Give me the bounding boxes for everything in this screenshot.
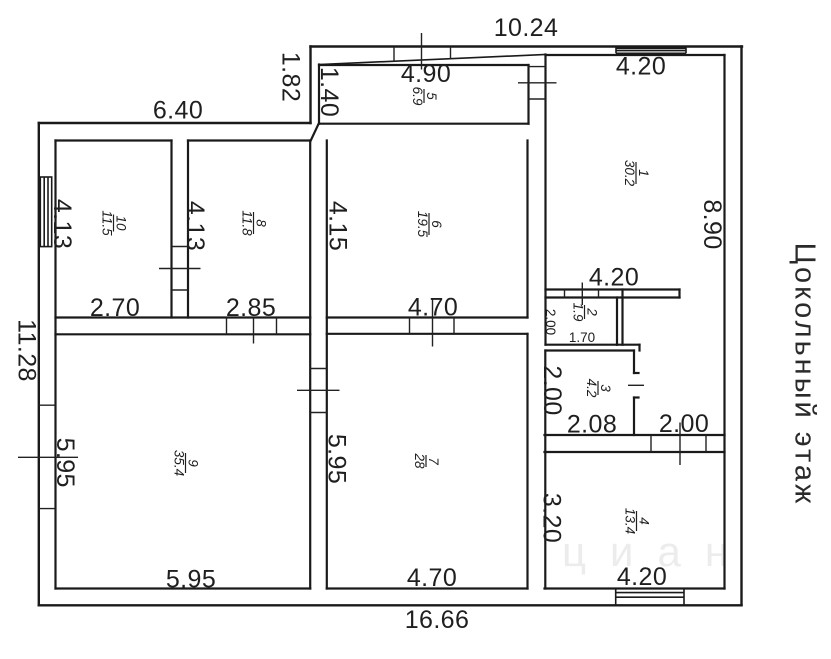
wire room 1 left wall	[544, 55, 546, 345]
node room 10+9 left wall	[54, 141, 56, 589]
window room9 left lower rung	[39, 508, 56, 510]
svg-text:2.00: 2.00	[543, 309, 558, 335]
wire outer top-left wall	[39, 122, 311, 124]
wire room 9 top wall	[56, 333, 311, 335]
window room1 top right cap	[685, 47, 687, 54]
svg-text:4.13: 4.13	[48, 199, 76, 249]
window room1 top hatch line2	[616, 50, 686, 52]
wire diagonal door leaf top	[319, 55, 546, 65]
wire outer left wall	[38, 123, 40, 605]
svg-text:11.5: 11.5	[100, 210, 115, 236]
svg-text:4.2: 4.2	[584, 379, 599, 398]
svg-text:2.00: 2.00	[659, 410, 709, 438]
window room4 bottom right cap	[683, 589, 685, 606]
wire room 5 right wall	[527, 65, 529, 124]
window room1 top left cap	[615, 47, 617, 54]
door top wall right jamb	[450, 47, 452, 59]
svg-text:2.00: 2.00	[538, 365, 566, 415]
wire room 4 bottom wall	[545, 587, 725, 589]
dimension 4.13 room8 vertical	[181, 201, 209, 251]
room 4 label	[623, 508, 652, 534]
svg-text:3: 3	[598, 384, 613, 392]
wire room 2 outer right wall line	[621, 290, 623, 345]
svg-text:4.13: 4.13	[181, 201, 209, 251]
svg-text:2.08: 2.08	[567, 411, 617, 439]
wire room 3 right wall upper	[633, 351, 635, 374]
wire room 1 top wall	[546, 54, 725, 56]
window room10 left hatch line1	[39, 177, 41, 247]
dimension 3.20 room4 vertical	[538, 493, 566, 543]
dimension 8.90 vertical	[698, 199, 726, 249]
window room1 top hatch line1	[616, 47, 686, 49]
door room9/room7 lower rung	[310, 412, 327, 414]
title Цокольный этаж vertical	[789, 243, 821, 507]
window room10 left top cap	[39, 176, 53, 178]
svg-text:4.90: 4.90	[401, 60, 451, 88]
door room9/room7 upper rung	[310, 368, 327, 370]
svg-text:9: 9	[186, 459, 201, 467]
dimension 4.13 room10 vertical	[48, 199, 76, 249]
svg-text:4.20: 4.20	[616, 53, 666, 81]
svg-text:11.8: 11.8	[240, 210, 255, 236]
svg-text:10: 10	[114, 215, 129, 231]
door room10/room8 tick	[159, 268, 201, 270]
room 5 label	[410, 87, 439, 106]
wire outer right wall	[740, 47, 742, 606]
wire room 7 right wall	[526, 334, 528, 589]
wire room 7 top wall	[327, 333, 528, 335]
wire room 3 door jog lower	[634, 396, 639, 398]
wire room 6 bottom wall	[327, 316, 528, 318]
door room1 bottom left jamb	[564, 290, 566, 298]
door room10/room8 lower rung	[172, 289, 189, 291]
wire room 8 top wall	[188, 139, 310, 141]
room 10 label	[100, 210, 129, 236]
wire rooms 8/9 right wall line	[309, 141, 311, 589]
door hall/room4 tick	[679, 423, 681, 466]
window room9 left tick	[18, 456, 78, 458]
svg-text:5.95: 5.95	[323, 434, 351, 484]
door room5/room1 lower rung	[529, 98, 546, 100]
svg-text:1.9: 1.9	[571, 303, 586, 322]
window room10 left bottom cap	[39, 246, 53, 248]
wire jog vertical below room 2	[638, 345, 640, 351]
dimension 2.00 room3 vertical	[538, 365, 566, 415]
wire room 3 right wall lower	[633, 398, 635, 436]
wire room 10 top wall	[56, 139, 172, 141]
svg-text:8: 8	[254, 219, 269, 227]
door top wall tick	[421, 33, 423, 70]
door top wall left jamb	[393, 47, 395, 63]
wire room 3 top wall	[546, 349, 635, 351]
wire outer bottom wall	[39, 604, 742, 606]
svg-text:16.66: 16.66	[405, 606, 470, 634]
door hall/room4 left jamb	[650, 435, 652, 452]
svg-text:3.20: 3.20	[538, 493, 566, 543]
dimension 1.40 vertical	[315, 67, 343, 117]
door room6/room7 left jamb	[409, 318, 411, 334]
svg-text:13.4: 13.4	[623, 508, 638, 534]
wire room 2 bottom wall	[546, 344, 618, 346]
svg-text:Цокольный этаж: Цокольный этаж	[789, 243, 821, 507]
svg-text:1.40: 1.40	[315, 67, 343, 117]
wire room 4 top wall	[545, 451, 725, 453]
wire room 5 left wall	[318, 65, 320, 124]
svg-text:4: 4	[637, 517, 652, 525]
wire diagonal joint wall	[311, 124, 319, 141]
wire room 10/8 wall right line	[187, 141, 189, 318]
door hall/room4 right jamb	[705, 435, 707, 452]
wire rooms 6/7 left wall line	[326, 141, 328, 589]
room 2 label	[571, 303, 600, 322]
room 9 label	[172, 450, 201, 476]
room 7 label	[412, 452, 441, 469]
dimension 1.82 vertical	[277, 52, 305, 102]
svg-text:6: 6	[429, 220, 444, 228]
door room8/room9 right jamb	[276, 318, 278, 335]
room 1 label	[622, 160, 651, 187]
door room10/room8 upper rung	[172, 246, 189, 248]
window room10 left hatch line2	[43, 177, 45, 247]
svg-text:11.28: 11.28	[13, 319, 41, 382]
svg-text:2.70: 2.70	[90, 294, 140, 322]
door room5/room1 tick	[518, 82, 557, 84]
wire room 2 right wall	[616, 298, 618, 345]
room 3 label	[584, 379, 613, 398]
svg-text:5: 5	[424, 92, 439, 100]
wire room 5 bottom wall	[319, 123, 529, 125]
svg-text:4.15: 4.15	[324, 201, 352, 251]
svg-text:28: 28	[412, 452, 427, 469]
svg-text:30.2: 30.2	[622, 160, 637, 187]
window room4 bottom hatch line2	[616, 596, 684, 598]
svg-text:2: 2	[585, 307, 600, 316]
door room8/room9 tick	[253, 318, 255, 344]
door room1 bottom tick	[581, 283, 583, 306]
svg-text:1.82: 1.82	[277, 52, 305, 102]
svg-text:6.40: 6.40	[153, 97, 203, 125]
wire rooms 10+8 bottom wall	[56, 316, 311, 318]
window room10 left hatch line4	[51, 177, 53, 247]
wire room 6 right wall	[526, 141, 528, 318]
dimension 2.00 room2 vertical small	[543, 309, 558, 335]
wire room 1 bottom wall cap	[678, 290, 680, 298]
door room8/room9 left jamb	[226, 318, 228, 335]
window room4 bottom left cap	[615, 589, 617, 606]
svg-text:1: 1	[636, 169, 651, 177]
wire room 5 top wall	[319, 64, 529, 66]
svg-text:10.24: 10.24	[494, 14, 559, 42]
wire room 1 bottom wall	[546, 288, 680, 290]
dimension 5.95 room9 vertical	[51, 438, 79, 488]
wire room 3+4 left wall	[544, 351, 546, 589]
room 8 label	[240, 210, 269, 236]
svg-text:19.5: 19.5	[415, 211, 430, 238]
door room6/room7 right jamb	[453, 318, 455, 334]
svg-text:4.20: 4.20	[617, 563, 667, 591]
dimension 5.95 room7 vertical	[323, 434, 351, 484]
wire room 3 door jog upper	[634, 372, 639, 374]
svg-text:35.4: 35.4	[172, 450, 187, 476]
wire room 7 bottom wall	[327, 587, 528, 589]
door room6/room7 tick	[432, 300, 434, 347]
svg-text:5.95: 5.95	[166, 566, 216, 594]
svg-text:2.85: 2.85	[226, 294, 276, 322]
door room3 right tick	[628, 384, 644, 386]
svg-text:4.20: 4.20	[589, 264, 639, 292]
room 6 label	[415, 211, 444, 238]
window room10 left hatch line3	[47, 177, 49, 247]
door room5/room1 upper rung	[529, 66, 546, 68]
svg-text:5.95: 5.95	[51, 438, 79, 488]
wire outer step wall	[309, 47, 311, 124]
svg-text:6.9: 6.9	[410, 87, 425, 106]
wire outer top wall	[311, 45, 743, 47]
wire room 9 bottom wall	[56, 587, 311, 589]
window room4 bottom hatch line1	[616, 592, 684, 594]
dimension 11.28 vertical	[13, 319, 41, 382]
svg-text:4.70: 4.70	[408, 294, 458, 322]
window room9 left upper rung	[39, 404, 56, 406]
svg-text:8.90: 8.90	[698, 199, 726, 249]
dimension 4.15 room6 vertical	[324, 201, 352, 251]
svg-text:1.70: 1.70	[569, 330, 595, 345]
wire right rooms long wall	[723, 55, 725, 589]
wire room 2 top wall	[546, 296, 680, 298]
svg-text:4.70: 4.70	[407, 564, 457, 592]
svg-text:7: 7	[426, 457, 441, 465]
window room1 top hatch line3	[616, 52, 686, 54]
wire jog below room 2	[617, 344, 640, 346]
door room1 bottom right jamb	[598, 290, 600, 298]
door room9/room7 tick	[297, 389, 340, 391]
wire hall bottom wall line	[545, 434, 725, 436]
wire room 10/8 wall left line	[170, 141, 172, 318]
